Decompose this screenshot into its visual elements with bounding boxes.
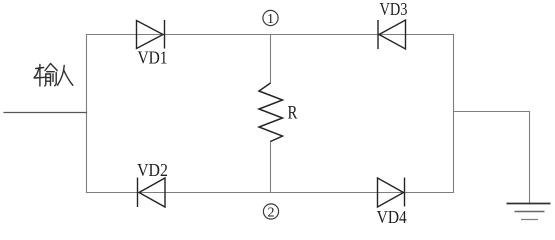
svg-text:VD2: VD2 bbox=[137, 160, 168, 180]
svg-text:VD4: VD4 bbox=[377, 207, 408, 226]
svg-text:1: 1 bbox=[267, 12, 274, 27]
svg-text:R: R bbox=[288, 102, 298, 123]
svg-text:2: 2 bbox=[268, 206, 275, 221]
svg-text:VD1: VD1 bbox=[137, 47, 167, 67]
svg-text:VD3: VD3 bbox=[380, 0, 408, 19]
